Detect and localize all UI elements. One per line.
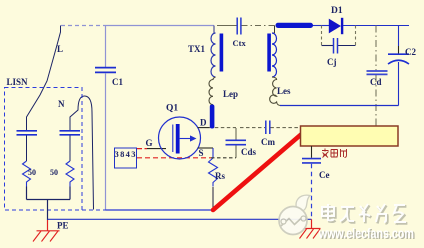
wire: top rail to transformer: [106, 25, 215, 27]
wire: LISN bottom join: [27, 187, 71, 221]
wire: thick drain bar: [210, 105, 215, 129]
svg-text:N: N: [58, 99, 65, 109]
node: heat loop red diagonal: [213, 135, 301, 211]
svg-text:S: S: [199, 148, 204, 158]
transistor Q1 MOSFET: [159, 104, 201, 160]
LISN box bottom dashes continue: [82, 209, 106, 211]
wire: left vertical (C1 branch lower): [105, 73, 107, 210]
capacitor C2 (electrolytic): [388, 26, 416, 106]
svg-text:www.elecfans.com: www.elecfans.com: [318, 226, 414, 241]
wire: source dashed to Cds bottom: [211, 157, 236, 159]
capacitor Ctx: [217, 18, 246, 49]
resistor 50 left: [23, 161, 31, 187]
svg-text:50: 50: [28, 168, 36, 177]
svg-text:50: 50: [50, 168, 58, 177]
wire: diode to C2 rail: [343, 25, 409, 27]
svg-text:TX1: TX1: [188, 44, 206, 54]
transformer core (primary bar): [220, 34, 224, 72]
svg-text:Lep: Lep: [223, 89, 238, 99]
wire: output bottom bus: [280, 105, 399, 107]
LISN capacitor left: [17, 131, 38, 161]
transformer TX1 primary winding: [188, 33, 216, 77]
wire: Rs bottom: [212, 187, 214, 210]
resistor Rs: [209, 158, 218, 187]
svg-text:Les: Les: [277, 86, 291, 96]
capacitor Ce: [302, 146, 330, 180]
svg-text:Ctx: Ctx: [233, 38, 247, 48]
capacitor Cm: [261, 121, 275, 148]
transformer core (secondary bar): [267, 34, 271, 72]
svg-text:3843: 3843: [115, 149, 136, 159]
wire: bottom bus to red junction: [106, 209, 214, 211]
ground (left PE): [33, 220, 60, 242]
resistor 50 right: [66, 161, 74, 187]
heatsink plate: [301, 126, 399, 158]
svg-text:LISN: LISN: [7, 77, 29, 87]
svg-text:D: D: [200, 118, 207, 128]
wire: dashed drain line to Cm: [240, 127, 265, 129]
capacitor Cd: [367, 71, 388, 87]
svg-text:Q1: Q1: [166, 104, 178, 114]
wire: bar to diode: [313, 25, 329, 27]
wire: drain dashed to Cds: [215, 127, 236, 129]
wire: Ce dashed to PE: [311, 164, 313, 219]
wire: primary top drop: [213, 26, 215, 34]
wire: gate red dashed: [137, 148, 147, 150]
svg-text:D1: D1: [331, 6, 343, 16]
inductor Lep (primary leakage): [209, 77, 238, 105]
wire: Cd dash-dot vertical to heatsink: [375, 26, 377, 127]
svg-text:PE: PE: [57, 221, 69, 231]
capacitor Cj dashed branch: [322, 26, 356, 68]
wire: PE bus: [48, 218, 312, 220]
wire: drain black: [198, 127, 210, 129]
LISN capacitor right: [60, 131, 81, 161]
wire: dash-dot Ctx to secondary: [242, 25, 275, 27]
svg-text:Ce: Ce: [319, 170, 330, 180]
wire: dashed Cm to heatsink: [270, 127, 300, 129]
svg-text:Cj: Cj: [327, 57, 337, 67]
svg-text:C2: C2: [405, 47, 416, 57]
transformer TX1 secondary winding: [272, 33, 277, 77]
LISN dashed box: [5, 88, 83, 211]
svg-text:L: L: [57, 44, 63, 54]
diode D1: [329, 6, 344, 34]
svg-text:G: G: [146, 138, 153, 148]
wire: top-left dashed L to rail: [61, 25, 106, 27]
watermark text 电子发烧友 (stroke imitation): [322, 204, 407, 224]
svg-text:C1: C1: [112, 77, 123, 87]
heatsink label (CJK strokes): [322, 149, 347, 158]
svg-text:Cd: Cd: [370, 77, 382, 87]
wire: left vertical (C1 branch upper): [105, 26, 107, 68]
inductor Les (secondary leakage): [270, 77, 291, 106]
svg-text:Cds: Cds: [241, 147, 257, 157]
watermark url text: [318, 226, 415, 242]
wire N (neutral) with arc: [70, 96, 94, 210]
wire L (live) slanted: [27, 26, 61, 132]
ground (right PE): [300, 219, 321, 238]
watermark logo: [279, 195, 310, 234]
svg-text:Rs: Rs: [215, 171, 225, 181]
wire: long red dashed (source sense): [137, 157, 211, 159]
3843 box U2: [115, 148, 137, 168]
wire: gate black: [147, 148, 166, 150]
wire: secondary top drop: [272, 26, 275, 34]
svg-text:Cm: Cm: [261, 137, 275, 147]
capacitor Cds: [226, 128, 257, 158]
wire: source to Rs: [212, 148, 214, 158]
wire: thick secondary top bar: [276, 23, 314, 28]
wire: source black: [198, 147, 213, 149]
capacitor C1: [95, 68, 123, 87]
